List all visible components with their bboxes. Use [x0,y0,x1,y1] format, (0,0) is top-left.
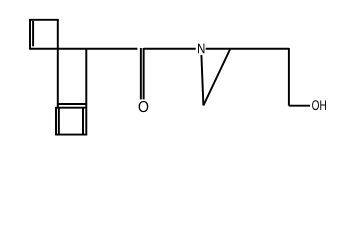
wire: shared vertical edge (square right / tall ring left) [57,19,59,108]
wire: horizontal bond y=104 [57,103,87,105]
wire: CH2-CH2 vertical [288,48,290,106]
carbonyl C=O double bond line b [143,48,145,99]
wire: N-C bond and chain horizontal [206,48,289,50]
bottom ring bottom edge [55,134,87,136]
atom label OH [312,100,326,110]
wire: main chain horizontal [29,48,137,50]
bottom ring left outer edge [55,107,57,135]
wire: CH2-OH bond [289,105,310,107]
cyclobutene ring top edge [29,19,58,21]
aziridine edge N-CH2 (left, near vertical) [201,55,203,105]
cyclobutene ring left edge [29,19,31,50]
wire: horizontal bond y=107.7 [55,107,87,109]
cyclobutene double bond inner line [32,21,34,46]
wire: tall ring right edge [85,48,87,135]
atom label N [198,44,204,54]
carbonyl C=O double bond line a [140,48,142,99]
aziridine edge CH-CH2 (diagonal) [203,49,230,106]
wire: C(=O)-N bond [144,48,196,50]
bottom ring inner double line right [82,108,84,136]
atom label O (carbonyl) [139,101,149,112]
bottom ring inner double line left [58,108,60,136]
